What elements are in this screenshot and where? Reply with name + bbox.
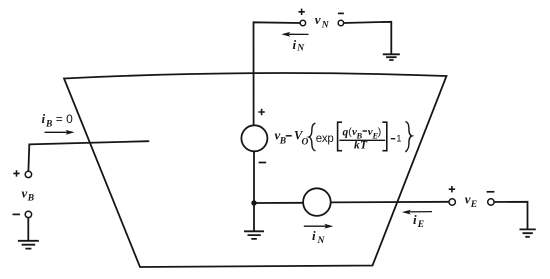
- svg-text:exp: exp: [316, 133, 334, 145]
- svg-text:B: B: [45, 120, 52, 130]
- svg-text:B: B: [279, 137, 286, 147]
- svg-text:N: N: [317, 236, 326, 246]
- svg-text:T: T: [360, 140, 368, 152]
- svg-text:i: i: [42, 111, 46, 126]
- svg-text:): ): [378, 126, 382, 138]
- svg-text:O: O: [302, 137, 309, 147]
- svg-text:i: i: [293, 37, 297, 52]
- svg-text:v: v: [315, 12, 321, 27]
- svg-text:N: N: [296, 44, 305, 54]
- svg-text:= 0: = 0: [56, 112, 73, 126]
- svg-text:v: v: [22, 185, 28, 200]
- svg-text:N: N: [321, 20, 330, 30]
- svg-text:B: B: [27, 194, 34, 204]
- svg-text:i: i: [312, 228, 316, 243]
- svg-text:1: 1: [396, 134, 401, 145]
- svg-text:E: E: [470, 200, 477, 210]
- svg-text:i: i: [413, 212, 417, 227]
- svg-text:E: E: [417, 220, 424, 230]
